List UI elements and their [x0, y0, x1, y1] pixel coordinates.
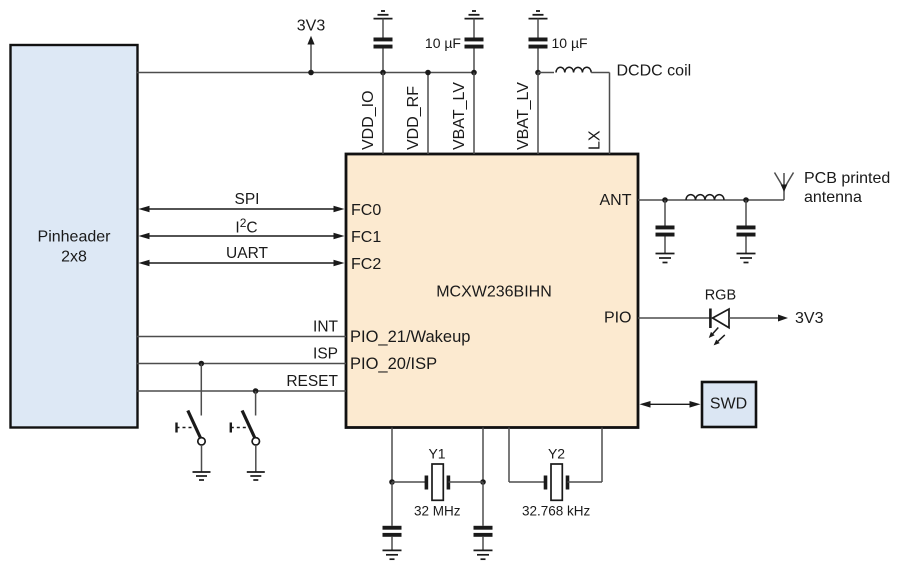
svg-text:PIO_21/Wakeup: PIO_21/Wakeup: [350, 328, 470, 346]
capacitor C5 (antenna match): [737, 200, 756, 254]
pinheader 2x8 connector: [11, 45, 138, 428]
ground C6: [383, 550, 402, 559]
capacitor C3 10uF (VBAT_LV dcdc) with top ground: [529, 11, 588, 73]
IC U1 MCXW236BIHN: [346, 154, 638, 428]
wire 3V3 power rail: [137, 72, 474, 74]
svg-text:PIO: PIO: [604, 310, 632, 327]
wire LED to 3V3: [729, 310, 824, 327]
power 3V3 arrow: [297, 18, 326, 73]
node junction SW1/ISP: [199, 361, 205, 367]
LED D1 RGB: [705, 288, 736, 346]
wire INT: [137, 319, 346, 337]
svg-text:VBAT_LV: VBAT_LV: [515, 82, 532, 150]
inductor L1 DCDC coil: [538, 63, 691, 80]
capacitor C6 (Y1 load): [383, 482, 402, 550]
wire Y1 pin b: [482, 428, 484, 483]
node junction Y1 b: [480, 479, 486, 485]
switch SW2 (RESET button): [231, 391, 260, 472]
switch SW1 (ISP button): [177, 364, 206, 473]
node junction SW2/RESET: [253, 388, 259, 394]
antenna ANT1 PCB printed antenna: [775, 170, 891, 206]
svg-text:RGB: RGB: [705, 288, 736, 304]
wire RESET: [137, 373, 346, 391]
ground C5: [737, 254, 756, 263]
svg-text:FC2: FC2: [351, 256, 381, 273]
pin VDD_RF: [405, 73, 428, 155]
svg-text:SWD: SWD: [710, 396, 747, 413]
svg-text:PCB printed: PCB printed: [804, 170, 890, 187]
connector SWD box: [702, 382, 756, 427]
svg-text:antenna: antenna: [804, 189, 862, 206]
svg-text:VDD_IO: VDD_IO: [360, 90, 377, 150]
wire LX pin: [609, 73, 611, 155]
wire PIO to LED: [638, 317, 710, 319]
svg-text:I2C: I2C: [235, 216, 257, 236]
ground SW2: [247, 472, 265, 480]
ground C4: [656, 254, 675, 263]
svg-text:INT: INT: [313, 319, 339, 336]
node junction ANT cap2: [743, 197, 749, 203]
svg-text:MCXW236BIHN: MCXW236BIHN: [436, 284, 552, 301]
pin VBAT_LV 2: [515, 73, 538, 155]
svg-text:DCDC coil: DCDC coil: [617, 63, 692, 80]
svg-text:Y1: Y1: [428, 446, 445, 462]
pin VBAT_LV 1: [451, 73, 474, 155]
node junction 3V3/arrow: [308, 70, 314, 76]
svg-text:VDD_RF: VDD_RF: [405, 86, 422, 150]
svg-text:10 µF: 10 µF: [552, 35, 588, 51]
ground SW1: [193, 472, 211, 480]
wire ANT: [638, 199, 784, 201]
pin VDD_IO: [360, 73, 383, 155]
svg-text:VBAT_LV: VBAT_LV: [451, 82, 468, 150]
svg-text:3V3: 3V3: [297, 18, 326, 35]
wire Y1 pin a: [391, 428, 393, 483]
svg-text:SPI: SPI: [235, 191, 260, 208]
svg-text:PIO_20/ISP: PIO_20/ISP: [350, 355, 437, 373]
node junction Y1 a: [389, 479, 395, 485]
svg-text:UART: UART: [226, 245, 268, 262]
svg-text:3V3: 3V3: [795, 310, 824, 327]
inductor L2 (antenna match): [686, 195, 724, 200]
svg-text:FC0: FC0: [351, 202, 381, 219]
node junction C2: [471, 70, 477, 76]
svg-text:ANT: ANT: [600, 192, 632, 209]
capacitor C7 (Y1 load): [474, 482, 493, 550]
svg-text:32.768 kHz: 32.768 kHz: [522, 503, 591, 518]
node junction ANT cap1: [662, 197, 668, 203]
crystal Y1 32 MHz: [392, 446, 483, 519]
svg-text:RESET: RESET: [286, 373, 338, 390]
svg-text:FC1: FC1: [351, 229, 381, 246]
bus SPI double arrow: [139, 191, 345, 212]
svg-text:Pinheader: Pinheader: [38, 229, 112, 246]
svg-text:10 µF: 10 µF: [425, 35, 461, 51]
capacitor C4 (antenna match): [656, 200, 675, 254]
bus I2C double arrow: [139, 216, 345, 239]
ground C7: [474, 550, 493, 559]
svg-text:2x8: 2x8: [61, 249, 87, 266]
bus SWD double arrow: [640, 401, 701, 408]
bus UART double arrow: [139, 245, 345, 266]
svg-text:32 MHz: 32 MHz: [414, 503, 461, 518]
capacitor C2 10uF (VBAT_LV) with top ground: [425, 11, 484, 73]
svg-text:Y2: Y2: [548, 446, 565, 462]
svg-text:LX: LX: [587, 130, 604, 150]
wire ISP: [137, 346, 346, 364]
node junction VDD_RF: [425, 70, 431, 76]
crystal Y2 32.768 kHz: [509, 428, 602, 519]
svg-text:ISP: ISP: [313, 346, 338, 363]
node junction C1: [380, 70, 386, 76]
capacitor C1 (VDD_IO decoupling) with top ground: [374, 11, 393, 73]
node junction C3: [535, 70, 541, 76]
